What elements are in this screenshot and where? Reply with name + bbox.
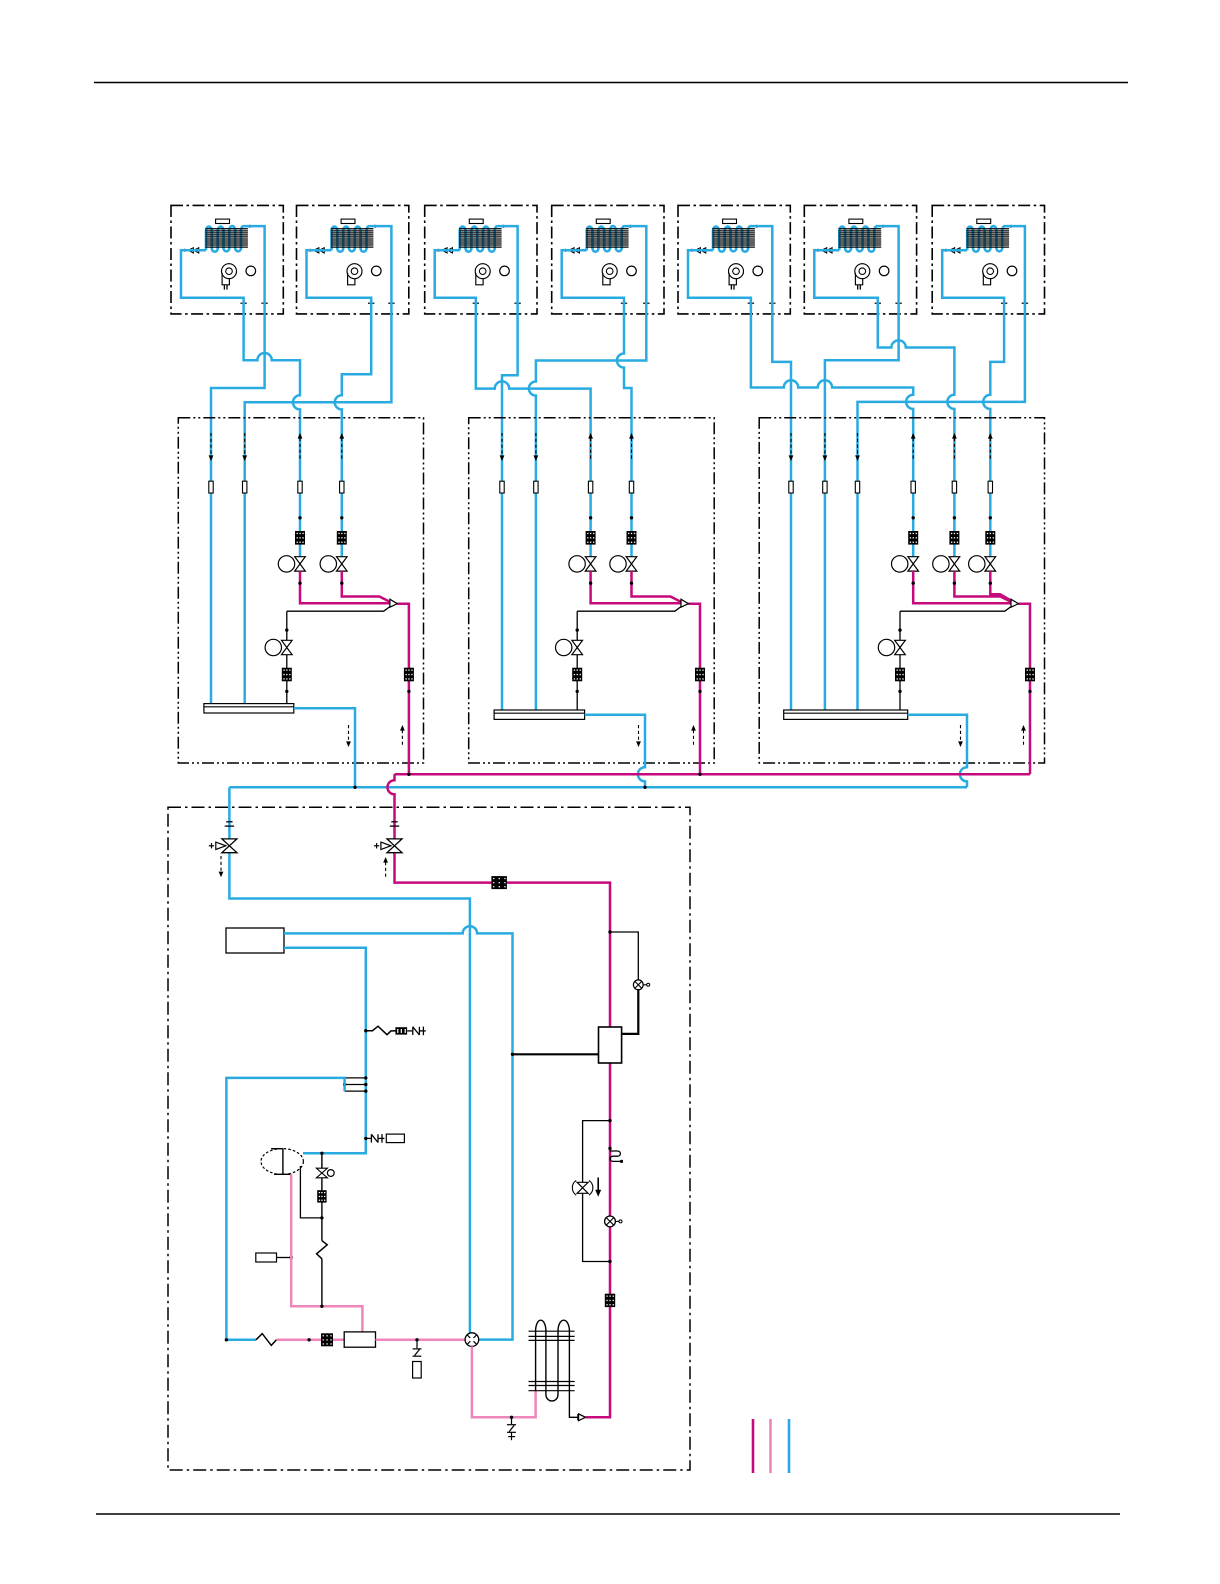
BS unit 2 gas out flow arrow xyxy=(638,725,640,742)
BS unit 2 liquid port flow arrow xyxy=(590,438,592,461)
indoor unit 3 expansion-valve arrows xyxy=(447,248,452,253)
page header rule xyxy=(94,82,1128,84)
BS unit 1 gas out pipe xyxy=(294,708,355,787)
indoor unit 1 fan motor xyxy=(246,266,256,276)
unit 3 liquid pipe to BS2 port3 (hop) xyxy=(435,250,591,557)
unit 3 gas pipe to BS2 port1 xyxy=(498,226,518,710)
BS unit 3 valve outlet dot xyxy=(989,582,992,585)
BS unit 1 liquid port flange xyxy=(298,481,302,493)
BS unit 1 suction port 1 flange xyxy=(209,481,213,493)
BS unit 1 liquid out flow arrow xyxy=(401,730,403,747)
hot gas bypass flow arrow xyxy=(597,1178,599,1191)
unit 1 gas pipe to BS1 port1 xyxy=(211,226,265,703)
BS unit 2 liquid port strainer xyxy=(627,531,637,545)
BS unit 1 liquid port flange xyxy=(340,481,344,493)
indoor unit 7 fan xyxy=(983,264,998,279)
BS unit 3 motorized valve xyxy=(949,557,960,571)
BS unit 1 liquid port junction dot xyxy=(340,516,343,519)
BS unit 2 liquid out flow arrow xyxy=(693,730,695,747)
charge port branch xyxy=(415,1338,418,1341)
BS unit 1 liquid port flow arrow xyxy=(341,438,343,461)
BS unit 3 liquid out strainer xyxy=(1025,668,1035,682)
BS unit 3 liquid port junction dot xyxy=(912,516,915,519)
indoor unit 4 liquid-pipe junction dot xyxy=(564,249,567,252)
BS unit 2 liquid out pipe xyxy=(688,604,700,775)
indoor unit 7 liquid-pipe junction dot xyxy=(944,249,947,252)
indoor unit 2 fan xyxy=(347,264,362,279)
hot gas bypass valve xyxy=(577,1182,588,1193)
BS unit 1 subcool branch pipe xyxy=(286,611,288,703)
BS unit 3 gas header manifold xyxy=(784,710,908,719)
BS unit 1 motorized valve xyxy=(295,557,306,571)
liquid pink pipe to receiver xyxy=(277,1339,345,1342)
BS unit 3 liquid header pipe (first branch) xyxy=(913,571,1011,603)
gas stop valve drop pipe xyxy=(229,787,470,1333)
gas stop valve xyxy=(222,839,237,853)
BS unit 1 valve outlet dot xyxy=(340,582,343,585)
liquid stop valve service arrow xyxy=(374,845,379,847)
BS unit 2 liquid out dot xyxy=(698,690,701,693)
indoor unit 1 label plate xyxy=(216,219,230,223)
BS unit 1 suction port 2 flange xyxy=(243,481,247,493)
indoor unit 6 pipe connection ticks xyxy=(875,302,881,304)
indoor unit 4 cabinet xyxy=(552,205,664,314)
liquid line strainer xyxy=(491,876,507,889)
main liquid line (magenta) xyxy=(395,773,1031,776)
compressor xyxy=(261,1149,303,1175)
unit 5 liquid pipe to BS3 port4 (hops) xyxy=(688,250,913,557)
indoor unit 2 fan motor xyxy=(372,266,382,276)
BS unit 2 bypass line to subcool valve xyxy=(577,607,681,612)
indoor unit 5 cabinet xyxy=(678,205,790,314)
BS unit 2 liquid port junction dot xyxy=(589,516,592,519)
unit 5 gas pipe to BS3 port1 xyxy=(751,226,791,710)
BS unit 3 subcool strainer xyxy=(895,668,905,682)
indoor unit 4 pipe connection ticks xyxy=(621,302,627,304)
BS unit 2 cabinet xyxy=(469,418,715,763)
oil equalizing column xyxy=(321,1153,323,1306)
BS unit 3 suction port 1 flange xyxy=(789,481,793,493)
indoor unit 3 liquid-pipe junction dot xyxy=(437,249,440,252)
oil separator suction-return line xyxy=(513,1053,599,1055)
BS unit 2 suction port 2 flange xyxy=(534,481,538,493)
indoor unit 2 heat-exchanger coil (blue serpentine) xyxy=(332,226,370,252)
BS unit 3 liquid header pipe (third branch) xyxy=(990,571,1011,601)
unit 2 gas pipe to BS1 port2 xyxy=(245,226,392,703)
BS unit 1 subcool strainer xyxy=(282,668,292,682)
BS unit 3 liquid out dot xyxy=(1028,690,1031,693)
gas stop valve flow arrow xyxy=(220,856,222,872)
compressor oil drain line xyxy=(300,1166,322,1218)
BS unit 1 liquid header pipe (first branch) xyxy=(300,571,390,603)
BS unit 3 motorized valve xyxy=(985,557,996,571)
BS unit 2 liquid port strainer xyxy=(586,531,596,545)
indoor unit 4 fan xyxy=(602,264,617,279)
legend line - subcool xyxy=(769,1419,772,1473)
indoor unit 5 drain mark xyxy=(730,285,732,289)
BS unit 1 liquid out pipe xyxy=(397,604,409,775)
oil separator xyxy=(599,1027,622,1063)
indoor unit 2 label plate xyxy=(341,219,355,223)
unit 7 liquid pipe to BS3 port6 (jog, hop) xyxy=(942,250,1004,557)
BS unit 2 motorized valve xyxy=(626,557,637,571)
unit 1 liquid pipe to BS1 port3 (hops) xyxy=(181,250,300,557)
compressor discharge pink pipe xyxy=(291,1174,362,1332)
BS unit 3 suction port 2 flange xyxy=(823,481,827,493)
BS unit 1 motorized valve xyxy=(337,557,348,571)
BS unit 1 liquid port flow arrow xyxy=(299,438,301,461)
plate heat exchanger coil xyxy=(536,1320,578,1417)
BS unit 3 suction port 1 flow arrow xyxy=(790,433,792,456)
four-way valve xyxy=(465,1333,479,1347)
indoor unit 5 gas-pipe junction dot xyxy=(755,225,758,228)
indoor unit 1 expansion-valve arrows xyxy=(194,248,199,253)
indoor unit 3 fan motor xyxy=(500,266,510,276)
indoor unit 7 heat-exchanger coil (blue serpentine) xyxy=(967,226,1005,252)
BS unit 1 liquid out dot xyxy=(407,690,410,693)
indoor unit 4 heat-exchanger coil (blue serpentine) xyxy=(587,226,625,252)
BS unit 2 valve outlet dot xyxy=(630,582,633,585)
indoor unit 6 coil fins (hatch) xyxy=(839,229,882,247)
BS unit 2 subcool motorized valve xyxy=(572,640,583,654)
page footer rule xyxy=(96,1513,1120,1515)
oil line capillary xyxy=(317,1241,328,1259)
indoor unit 6 liquid-pipe junction dot xyxy=(817,249,820,252)
BS unit 3 subcool branch dots xyxy=(898,628,901,631)
indoor unit 3 cabinet xyxy=(425,205,537,314)
BS unit 2 subcool branch pipe xyxy=(576,611,578,710)
BS unit 2 gas header manifold xyxy=(494,710,584,719)
main gas line junction dots xyxy=(353,786,356,789)
suction pipe from control box (hop) to four-way valve right port xyxy=(284,926,513,1339)
BS unit 1 suction port 2 flow arrow xyxy=(244,433,246,456)
BS unit 3 liquid header pipe (second branch) xyxy=(954,571,1011,602)
indoor unit 3 gas-pipe junction dot xyxy=(502,225,505,228)
indoor unit 2 gas-pipe junction dot xyxy=(374,225,377,228)
indoor unit 6 drain mark xyxy=(857,285,859,289)
BS unit 1 subcool branch dots xyxy=(285,628,288,631)
main gas line (blue) xyxy=(229,786,967,789)
BS unit 3 gas out pipe xyxy=(908,715,967,788)
liquid stop valve xyxy=(387,839,402,853)
indoor unit 4 coil fins (hatch) xyxy=(586,229,629,247)
indoor unit 5 liquid-pipe junction dot xyxy=(690,249,693,252)
BS unit 3 liquid port strainer xyxy=(985,531,995,545)
BS unit 2 valve outlet dot xyxy=(589,582,592,585)
indoor unit 6 expansion-valve arrows xyxy=(827,248,832,253)
indoor unit 5 heat-exchanger coil (blue serpentine) xyxy=(713,226,751,252)
injection capillary xyxy=(608,1147,611,1150)
BS unit 2 subcool strainer xyxy=(572,668,582,682)
BS unit 3 liquid port strainer xyxy=(949,531,959,545)
receiver strainer xyxy=(321,1333,333,1346)
indoor unit 5 label plate xyxy=(723,219,737,223)
unit 7 gas pipe to BS3 port3 xyxy=(858,226,1025,710)
indoor unit 4 label plate xyxy=(596,219,610,223)
indoor unit 7 label plate xyxy=(977,219,991,223)
liquid capillary xyxy=(256,1334,277,1346)
legend line - liquid xyxy=(752,1419,755,1473)
discharge line down the right side xyxy=(586,1416,611,1419)
BS unit 3 liquid port junction dot xyxy=(953,516,956,519)
hot gas bypass branch xyxy=(608,1119,611,1122)
indoor unit 1 heat-exchanger coil (blue serpentine) xyxy=(206,226,244,252)
indoor unit 2 pipe connection ticks xyxy=(368,302,374,304)
indoor unit 7 coil fins (hatch) xyxy=(967,229,1010,247)
BS unit 1 cabinet xyxy=(178,418,423,763)
BS unit 3 suction port 3 flow arrow xyxy=(857,433,859,456)
BS unit 3 liquid port strainer xyxy=(908,531,918,545)
oil line strainer xyxy=(317,1190,326,1202)
liquid drop pipe to capillary xyxy=(226,1078,344,1340)
BS unit 2 liquid out strainer xyxy=(695,668,705,682)
indoor unit 2 expansion-valve arrows xyxy=(319,248,324,253)
BS unit 3 suction port 3 flange xyxy=(855,481,859,493)
indoor unit 7 expansion-valve arrows xyxy=(955,248,960,253)
high pressure sensor branch xyxy=(608,930,611,933)
indoor unit 1 pipe connection ticks xyxy=(240,302,246,304)
indoor unit 7 fan motor xyxy=(1007,266,1017,276)
indoor unit 2 liquid-pipe junction dot xyxy=(309,249,312,252)
pink pipe four-way valve to plate heat exchanger xyxy=(472,1346,536,1417)
BS unit 2 gas out pipe xyxy=(585,715,645,788)
pink pipe receiver to four-way valve xyxy=(376,1339,466,1342)
BS unit 3 liquid port flow arrow xyxy=(912,438,914,461)
BS unit 1 liquid port junction dot xyxy=(298,516,301,519)
indoor unit 7 gas-pipe junction dot xyxy=(1009,225,1012,228)
suction pipe from control box to compressor xyxy=(284,948,366,1154)
indoor unit 2 cabinet xyxy=(297,205,409,314)
gas stop valve service arrow xyxy=(209,845,214,847)
BS unit 3 valve outlet dot xyxy=(912,582,915,585)
plate heat exchanger fins xyxy=(529,1330,575,1332)
indoor unit 5 fan motor xyxy=(753,266,763,276)
indoor unit 3 fan xyxy=(475,264,490,279)
BS unit 1 liquid out strainer xyxy=(404,668,414,682)
accumulator inlet blue stub xyxy=(226,1339,256,1342)
subcool heat exchanger ties xyxy=(345,1077,366,1079)
indoor unit 1 liquid-pipe junction dot xyxy=(183,249,186,252)
high pressure switch xyxy=(633,980,643,990)
BS unit 3 liquid port junction dot xyxy=(989,516,992,519)
BS unit 2 junction arrow xyxy=(681,599,688,607)
BS unit 3 liquid port flow arrow xyxy=(953,438,955,461)
BS unit 2 suction port 1 flange xyxy=(500,481,504,493)
BS unit 3 liquid out pipe xyxy=(1018,604,1030,775)
indoor unit 3 label plate xyxy=(469,219,483,223)
BS unit 1 suction port 1 flow arrow xyxy=(210,433,212,456)
unit 4 gas pipe to BS2 port2 (hop) xyxy=(529,226,646,710)
BS unit 1 subcool motorized valve xyxy=(282,640,293,654)
indoor unit 6 heat-exchanger coil (blue serpentine) xyxy=(839,226,877,252)
indoor unit 3 heat-exchanger coil (blue serpentine) xyxy=(460,226,498,252)
indoor unit 1 drain mark xyxy=(223,285,225,289)
indoor unit 1 cabinet xyxy=(171,205,283,314)
outdoor control box xyxy=(226,928,284,953)
BS unit 2 subcool branch dots xyxy=(576,628,579,631)
crankcase heater box xyxy=(256,1253,277,1262)
indoor unit 1 fan xyxy=(222,264,237,279)
BS unit 3 liquid port flow arrow xyxy=(989,438,991,461)
indoor unit 1 gas-pipe junction dot xyxy=(248,225,251,228)
indoor unit 2 coil fins (hatch) xyxy=(331,229,374,247)
indoor unit 5 coil fins (hatch) xyxy=(712,229,755,247)
unit 4 liquid pipe to BS2 port4 (hop, jog) xyxy=(562,250,632,557)
BS unit 1 bypass line to subcool valve xyxy=(287,607,390,612)
indoor unit 7 cabinet xyxy=(932,205,1044,314)
BS unit 1 gas out flow arrow xyxy=(348,725,350,742)
indoor unit 5 expansion-valve arrows xyxy=(701,248,706,253)
indoor unit 4 fan motor xyxy=(627,266,637,276)
indoor unit 6 label plate xyxy=(849,219,863,223)
BS unit 1 liquid header pipe (second branch) xyxy=(342,571,390,602)
indoor unit 3 pipe connection ticks xyxy=(473,302,479,304)
BS unit 3 liquid port flange xyxy=(988,481,992,493)
oil return capillary branch xyxy=(364,1029,367,1032)
BS unit 3 suction port 2 flow arrow xyxy=(824,433,826,456)
BS unit 2 suction port 1 flow arrow xyxy=(501,433,503,456)
discharge line strainer xyxy=(605,1294,615,1307)
indoor unit 4 expansion-valve arrows xyxy=(574,248,579,253)
BS unit 2 motorized valve xyxy=(585,557,596,571)
indoor unit 6 fan motor xyxy=(879,266,889,276)
legend line - gas xyxy=(788,1419,791,1473)
receiver xyxy=(344,1332,375,1347)
BS unit 3 subcool branch pipe xyxy=(899,611,901,710)
heat exchanger outlet check arrow xyxy=(577,1414,579,1420)
BS unit 1 junction arrow xyxy=(390,599,397,607)
BS unit 2 suction port 2 flow arrow xyxy=(535,433,537,456)
BS unit 2 liquid port flange xyxy=(629,481,633,493)
unit 2 liquid pipe to BS1 port4 (hop) xyxy=(307,250,372,557)
indoor unit 5 pipe connection ticks xyxy=(748,302,754,304)
BS unit 2 liquid port flow arrow xyxy=(631,438,633,461)
oil solenoid valve xyxy=(316,1168,327,1178)
BS unit 3 liquid port flange xyxy=(952,481,956,493)
indoor unit 1 coil fins (hatch) xyxy=(205,229,248,247)
BS unit 1 gas header manifold xyxy=(204,704,294,713)
BS unit 3 bypass line to subcool valve xyxy=(900,607,1011,612)
indoor unit 6 gas-pipe junction dot xyxy=(882,225,885,228)
liquid stop valve flow arrow xyxy=(385,862,387,878)
indoor unit 6 cabinet xyxy=(804,205,916,314)
indoor unit 4 gas-pipe junction dot xyxy=(629,225,632,228)
unit 6 liquid pipe to BS3 port5 (hops) xyxy=(814,250,954,557)
BS unit 1 liquid port strainer xyxy=(295,531,305,545)
service port under pink pipe xyxy=(510,1416,513,1419)
indoor unit 6 fan xyxy=(855,264,870,279)
check valve branch with sensor box xyxy=(364,1137,367,1140)
BS unit 1 valve outlet dot xyxy=(298,582,301,585)
BS unit 3 subcool motorized valve xyxy=(895,640,906,654)
main liquid line junction dots xyxy=(407,773,410,776)
BS unit 3 cabinet xyxy=(759,418,1044,763)
outdoor unit cabinet xyxy=(168,807,690,1470)
BS unit 2 liquid port flange xyxy=(588,481,592,493)
BS unit 2 liquid port junction dot xyxy=(630,516,633,519)
BS unit 2 liquid header pipe (first branch) xyxy=(591,571,681,603)
BS unit 3 liquid port flange xyxy=(911,481,915,493)
unit 6 gas pipe to BS3 port2 xyxy=(825,226,899,710)
BS unit 1 liquid port strainer xyxy=(337,531,347,545)
liquid stop valve caps xyxy=(391,821,397,823)
indoor unit 7 pipe connection ticks xyxy=(1001,302,1007,304)
low pressure sensor xyxy=(605,1216,616,1227)
BS unit 3 gas out flow arrow xyxy=(960,725,962,742)
BS unit 3 junction arrow xyxy=(1011,599,1018,607)
liquid stop valve drop pipe (hop over gas main) xyxy=(387,774,610,1417)
gas stop valve caps xyxy=(226,821,232,823)
BS unit 2 liquid header pipe (second branch) xyxy=(632,571,682,602)
BS unit 3 liquid out flow arrow xyxy=(1023,730,1025,747)
BS unit 3 valve outlet dot xyxy=(953,582,956,585)
indoor unit 3 coil fins (hatch) xyxy=(459,229,502,247)
BS unit 3 motorized valve xyxy=(908,557,919,571)
indoor unit 5 fan xyxy=(729,264,744,279)
